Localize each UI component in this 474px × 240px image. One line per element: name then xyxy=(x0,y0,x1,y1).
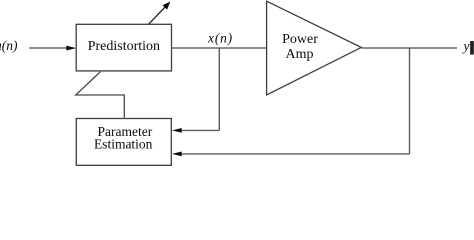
op-amp: Power Amp triangle xyxy=(267,1,362,95)
svg-text:Estimation: Estimation xyxy=(94,137,153,152)
svg-text:u(n): u(n) xyxy=(0,38,18,53)
arrowhead: input into Predistortion xyxy=(66,46,76,51)
wire: coefficient update zigzag (Parameter Estimation to Predistortion) xyxy=(76,72,125,119)
wire: Power Amp output xyxy=(361,47,457,49)
wire: feedback left to Parameter Estimation xyxy=(181,153,410,155)
box Predistortion xyxy=(76,24,171,71)
wire: x(n) tap down xyxy=(218,48,220,130)
wire: tap into Parameter Estimation xyxy=(181,129,220,131)
svg-text:Amp: Amp xyxy=(286,47,314,62)
svg-text:Power: Power xyxy=(282,32,318,47)
wire: Predistortion output to Power Amp xyxy=(172,47,267,49)
arrow: adaptation (diagonal through top of Predistortion) xyxy=(149,7,166,25)
svg-text:x(n): x(n) xyxy=(207,31,233,46)
wire: feedback down from output xyxy=(409,48,411,154)
svg-text:y: y xyxy=(462,39,470,54)
arrowhead: into Parameter Estimation (lower) xyxy=(172,152,182,157)
box Parameter Estimation xyxy=(76,119,171,166)
wire: input line xyxy=(29,47,68,49)
arrowhead: into Parameter Estimation (upper) xyxy=(172,128,182,133)
svg-text:Predistortion: Predistortion xyxy=(88,39,160,54)
